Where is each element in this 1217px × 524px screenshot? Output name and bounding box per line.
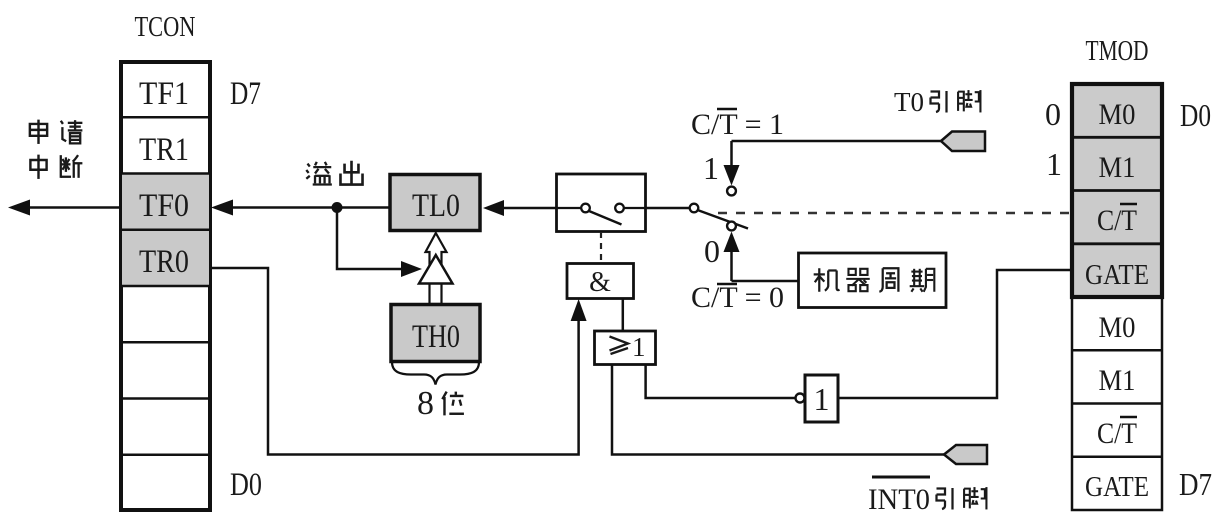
gate AND (&) — [567, 264, 634, 299]
switch S2 common node — [690, 204, 699, 213]
svg-text:C/T = 0: C/T = 0 — [691, 281, 784, 314]
bit C/T (timer1) — [1097, 417, 1137, 450]
increment triangle — [419, 255, 453, 284]
wire GATE from TMOD to inverter — [838, 270, 1072, 398]
label C/T = 0 — [691, 281, 784, 314]
svg-text:M1: M1 — [1099, 364, 1136, 397]
svg-text:INT0: INT0 — [868, 483, 930, 516]
svg-text:M0: M0 — [1099, 98, 1136, 131]
label INT0引脚 (with overbar) — [868, 477, 986, 516]
svg-text:1: 1 — [703, 150, 719, 186]
svg-text:TL0: TL0 — [412, 188, 460, 224]
label 8位 (8 bits) — [417, 385, 464, 422]
label 申请中断 (request interrupt) — [30, 120, 83, 179]
svg-text:TR0: TR0 — [139, 244, 189, 280]
svg-text:&: & — [589, 267, 611, 298]
svg-text:M1: M1 — [1099, 151, 1136, 184]
gate OR (>=1) — [595, 331, 656, 365]
wire dashed S1 to AND gate — [600, 232, 602, 263]
wire T0 pin line — [732, 140, 942, 143]
switch S2 blade — [698, 210, 749, 229]
label C/T = 1 — [691, 108, 784, 141]
wire OR right output to inverter — [646, 365, 795, 399]
svg-text:D0: D0 — [1180, 97, 1211, 133]
register TCON body — [121, 62, 210, 510]
svg-text:1: 1 — [814, 381, 830, 417]
wire TR0 to AND gate (with up arrow) — [211, 268, 587, 455]
register TMOD body — [1072, 84, 1162, 510]
register TH0 — [391, 305, 480, 362]
wire OR left output down to INT0 line — [612, 365, 944, 455]
hollow carry arrow TH0 to TL0 — [426, 233, 447, 304]
gate NOT (1) with bubble — [796, 375, 839, 422]
label T0引脚 — [894, 87, 980, 117]
switch S2 lower contact (arrow up) — [724, 222, 740, 281]
wire lower contact to machine-cycle box — [732, 280, 799, 283]
svg-text:T0: T0 — [894, 87, 924, 117]
wire junction down to increment triangle — [337, 208, 422, 278]
svg-text:C/T = 1: C/T = 1 — [691, 108, 784, 141]
brace under TH0 — [392, 362, 479, 385]
wire switch box to switch S2 — [646, 207, 691, 210]
wire switch to TL0 (arrowhead into TL0) — [483, 200, 556, 216]
svg-text:TR1: TR1 — [139, 132, 189, 168]
wire AND to OR gate — [622, 299, 625, 332]
svg-text:TCON: TCON — [135, 12, 196, 43]
svg-text:D7: D7 — [230, 76, 261, 112]
svg-text:TMOD: TMOD — [1086, 36, 1149, 67]
svg-text:GATE: GATE — [1085, 259, 1149, 291]
svg-text:0: 0 — [1045, 96, 1061, 132]
svg-text:TF0: TF0 — [139, 188, 189, 224]
label 溢出 (overflow) — [306, 161, 362, 185]
wire TL0 output to left (from TL0 left edge to junction) — [337, 206, 390, 209]
svg-text:1: 1 — [1046, 146, 1062, 182]
svg-text:GATE: GATE — [1085, 471, 1149, 503]
pin T0 pentagon — [941, 132, 985, 152]
svg-text:D0: D0 — [230, 467, 262, 503]
box 机器周期 (machine cycle) — [799, 253, 947, 308]
svg-text:C/T: C/T — [1097, 204, 1137, 237]
node overflow junction — [332, 202, 343, 213]
wire T0 pin down to upper contact (arrow down) — [724, 141, 740, 195]
svg-text:8: 8 — [417, 385, 434, 422]
wire interrupt-request arrow (TF0 to left) — [8, 200, 121, 216]
wire dashed C/T select to TMOD — [718, 212, 1072, 214]
svg-text:1: 1 — [632, 332, 646, 362]
svg-text:M0: M0 — [1099, 311, 1136, 344]
svg-text:C/T: C/T — [1097, 417, 1137, 450]
wire overflow into TF0 (arrowhead at TCON) — [211, 200, 337, 216]
svg-text:TF1: TF1 — [139, 76, 189, 112]
pin INT0 pentagon — [944, 445, 987, 464]
switch S1 box — [557, 174, 646, 232]
svg-text:0: 0 — [704, 233, 720, 269]
svg-text:D7: D7 — [1179, 466, 1212, 502]
register TL0 — [390, 175, 480, 231]
svg-text:TH0: TH0 — [412, 319, 460, 355]
bit C/T (shaded) — [1097, 204, 1137, 237]
